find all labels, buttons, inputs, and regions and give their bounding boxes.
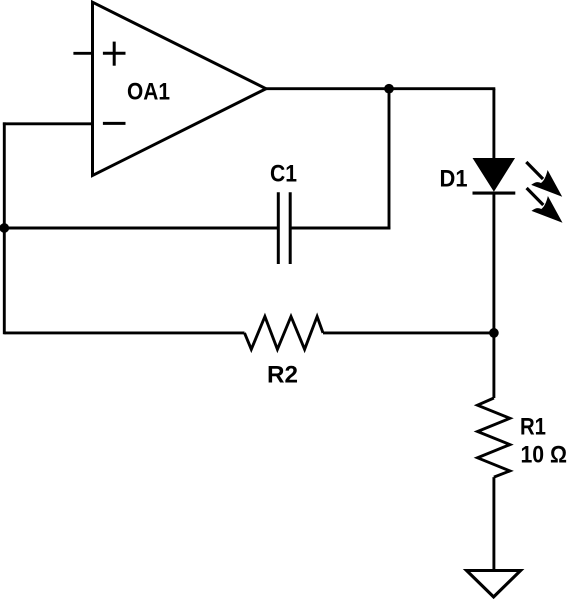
wire: inverting input feedback (left) — [3, 122, 93, 125]
svg-text:R1: R1 — [520, 414, 546, 441]
wire: LED cathode down to junction — [492, 193, 495, 333]
op-amp OA1 minus symbol — [103, 122, 126, 125]
svg-text:10 Ω: 10 Ω — [521, 441, 568, 468]
LED D1 light arrow 1 — [526, 162, 562, 197]
wire: branch down from output to C1 — [388, 89, 391, 230]
wire: junction down to R1 — [492, 333, 495, 398]
wire: output to LED anode — [492, 89, 495, 161]
wire: bottom feedback from left rail to R2 — [4, 331, 244, 334]
resistor R1 zigzag — [478, 398, 510, 477]
node: right junction — [489, 328, 499, 338]
wire: C1 right lead — [290, 227, 390, 230]
node: output junction — [384, 84, 394, 94]
ground — [467, 571, 521, 597]
op-amp U1 body (OA1 triangle) — [93, 2, 267, 175]
op-amp OA1 non-inverting input pin stub — [73, 52, 92, 55]
capacitor C1 plates — [278, 192, 290, 264]
wire: R2 to right junction — [323, 331, 494, 334]
node: left rail junction — [0, 223, 9, 233]
LED D1 cathode bar — [473, 192, 516, 195]
wire: op-amp output horizontal — [266, 87, 495, 90]
svg-text:OA1: OA1 — [127, 79, 170, 106]
svg-text:R2: R2 — [267, 361, 298, 388]
wire: R1 to ground — [492, 477, 495, 570]
wire: C1 left lead to left rail — [4, 227, 278, 230]
svg-text:D1: D1 — [440, 165, 468, 192]
LED D1 light arrow 2 — [527, 188, 563, 223]
resistor R2 zigzag — [245, 317, 324, 350]
LED D1 triangle (anode) — [475, 159, 513, 189]
svg-text:C1: C1 — [270, 161, 297, 188]
op-amp OA1 plus symbol — [103, 42, 126, 66]
wire: left vertical rail — [3, 122, 6, 334]
